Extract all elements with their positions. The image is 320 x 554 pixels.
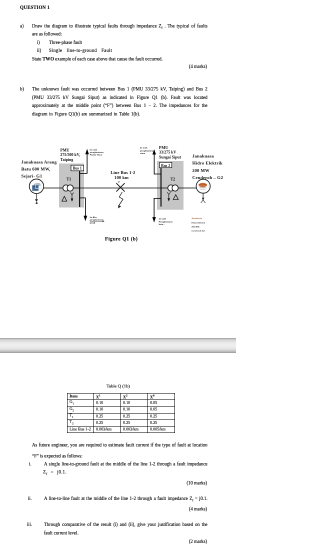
svg-text:(asal): (asal): [90, 222, 96, 224]
generator G2 (Janakuasa Hidro Elektrik): [196, 179, 210, 193]
substation shaded area PMU Taiping: [59, 164, 84, 208]
label Line Bus 1-2 100 km: [110, 170, 135, 180]
wire: feeder from Bus 1 down (ke arah penghantaran): [80, 198, 86, 216]
fault lightning arrow: [119, 192, 123, 205]
tiny feeder label bottom of Bus 2: [159, 218, 174, 226]
svg-text:T1: T1: [67, 177, 72, 182]
T2 wye grounded winding symbol: [167, 192, 170, 198]
wire: main line G1 to G2 through T1, Bus1, fault F, Bus2, T2: [44, 187, 197, 189]
generator G1 (Janakuasa Arang Batu): [29, 179, 43, 193]
svg-text:Janakuasa Arang: Janakuasa Arang: [21, 159, 57, 164]
svg-text:T2: T2: [171, 177, 176, 182]
label PMU 33/275 kV Sungai Siput: [159, 145, 182, 160]
svg-text:penghantaran: penghantaran: [140, 149, 154, 152]
page 2: [107, 384, 130, 389]
tiny feeder label (ke arah penghantaran Pantai Timur) top of Bus 1: [90, 148, 104, 156]
wire: feeder from Bus 2 up (ke arah penghantaran): [154, 154, 161, 174]
T1 delta winding symbol: [62, 196, 67, 201]
svg-text:Sungai Siput: Sungai Siput: [159, 154, 182, 159]
svg-text:F: F: [118, 180, 120, 184]
svg-text:100 km: 100 km: [114, 175, 129, 180]
wire: feeder from Bus 1 up (ke arah penghantaran): [80, 152, 88, 174]
ground of G1: [36, 194, 38, 200]
svg-text:ke arah: ke arah: [159, 218, 167, 221]
svg-text:Janakuasa: Janakuasa: [192, 153, 214, 158]
svg-text:PMU: PMU: [159, 145, 168, 150]
tiny caption under G2 (Janakuasa Hidro Elektrik Chenderoh): [192, 218, 206, 233]
page separator band: [0, 338, 236, 353]
svg-text:Line Bus 1-2: Line Bus 1-2: [110, 170, 135, 175]
svg-text:penghantaran: penghantaran: [90, 151, 104, 154]
svg-text:275/500 kV,: 275/500 kV,: [60, 152, 80, 157]
svg-text:Bus 2: Bus 2: [161, 164, 170, 168]
svg-text:Taiping: Taiping: [60, 157, 73, 162]
svg-text:200 MW,: 200 MW,: [192, 227, 201, 229]
substation shaded area PMU Sungai Siput: [157, 161, 184, 210]
ground of G2: [202, 193, 204, 200]
svg-text:Cenderoh – G2: Cenderoh – G2: [192, 175, 223, 180]
tiny feeder label top of Bus 2: [140, 147, 154, 155]
Bus 2 label box: [160, 162, 172, 167]
svg-text:utara: utara: [140, 152, 146, 155]
transformer T2: [168, 185, 174, 191]
svg-text:Batu 600 MW,: Batu 600 MW,: [21, 167, 50, 172]
svg-text:ke arah: ke arah: [140, 147, 148, 150]
T2 delta winding symbol: [173, 195, 178, 200]
svg-text:Penghantaran: Penghantaran: [159, 220, 174, 223]
svg-text:200 MW: 200 MW: [192, 168, 210, 173]
node Bus 1 busbar: [78, 171, 80, 207]
label generator G2: [192, 153, 223, 180]
node Bus 2 busbar: [160, 168, 162, 207]
label PMU 275/500 kV Taiping: [60, 147, 80, 162]
svg-text:33/275 kV: 33/275 kV: [159, 150, 176, 155]
svg-text:Sejari- G1: Sejari- G1: [21, 174, 43, 179]
svg-text:Hidro Elektrik: Hidro Elektrik: [192, 161, 223, 166]
T1 wye grounded winding symbol: [70, 193, 73, 199]
svg-text:Hidro Elektrik: Hidro Elektrik: [192, 221, 206, 224]
svg-text:ke Alor: ke Alor: [90, 216, 97, 219]
svg-text:Janakuasa: Janakuasa: [192, 218, 203, 220]
svg-text:Cenderoh-G2: Cenderoh-G2: [192, 230, 206, 233]
transformer T1: [63, 185, 69, 191]
svg-text:ke arah: ke arah: [90, 148, 98, 151]
Bus 1 label box: [71, 165, 84, 171]
svg-text:Bus 1: Bus 1: [73, 167, 82, 171]
label generator G1: [21, 159, 57, 178]
svg-text:batu...: batu...: [159, 223, 166, 226]
svg-text:Pantai Timur: Pantai Timur: [90, 154, 103, 157]
page 1 text: [20, 6, 50, 11]
wire: feeder from Bus 2 down (ke arah penghantaran): [154, 198, 161, 217]
fault location F : X mark on line 1-2: [116, 183, 124, 191]
svg-text:PMU: PMU: [60, 147, 69, 152]
tiny feeder label bottom of Bus 1 with small arrow: [90, 216, 104, 224]
